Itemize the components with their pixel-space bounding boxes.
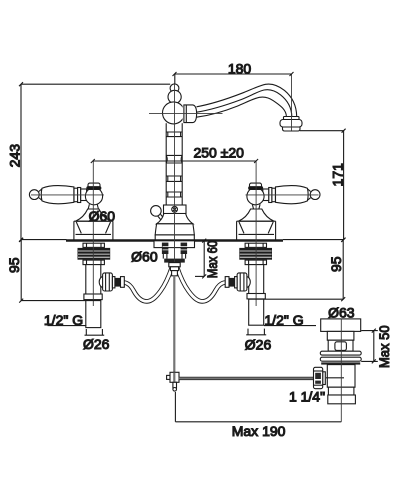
pop-up knob <box>151 206 166 223</box>
label 1/2" G left <box>44 312 86 328</box>
dimension 95 right <box>249 238 346 301</box>
svg-text:95: 95 <box>6 257 22 273</box>
dimension 180 <box>173 61 294 84</box>
svg-text:Max 60: Max 60 <box>204 241 220 279</box>
svg-text:Max 190: Max 190 <box>232 423 286 439</box>
centrelines <box>31 74 341 422</box>
drain knurled linkage nut <box>314 367 326 388</box>
drain waste assembly <box>320 319 361 404</box>
spout base bell <box>155 214 194 240</box>
svg-text:250 ±20: 250 ±20 <box>193 145 244 161</box>
spout tube <box>197 84 297 117</box>
right valve hose fitting <box>225 273 250 291</box>
right valve head <box>247 183 264 209</box>
pop-up rod vertical <box>167 276 179 391</box>
right valve shank <box>247 265 265 326</box>
svg-text:Ø26: Ø26 <box>245 336 272 352</box>
dimension Ø26 right <box>245 329 272 353</box>
dimension 250 ±20 <box>91 145 258 163</box>
svg-text:1/2" G: 1/2" G <box>44 312 83 328</box>
svg-text:Ø60: Ø60 <box>131 248 158 264</box>
left escutcheon <box>74 209 113 240</box>
right escutcheon <box>237 209 276 240</box>
spout collar <box>164 205 187 214</box>
centre mounting plate <box>154 241 195 276</box>
dimension 95 left <box>6 238 101 303</box>
svg-text:Max 50: Max 50 <box>377 325 393 368</box>
dimension Max 50 <box>361 325 392 368</box>
svg-text:171: 171 <box>330 163 346 187</box>
dimension 171 <box>300 129 346 242</box>
dimension 243 <box>6 82 170 241</box>
dimension Ø26 left <box>83 329 110 352</box>
pop-up rod horizontal <box>179 377 314 380</box>
left valve hose fitting <box>99 273 124 291</box>
spout column top finial <box>168 84 181 104</box>
svg-text:180: 180 <box>228 61 252 77</box>
left hose <box>124 267 172 301</box>
svg-text:1/2" G: 1/2" G <box>264 312 303 328</box>
svg-text:Ø60: Ø60 <box>89 208 116 224</box>
counter top <box>21 239 344 242</box>
aerator <box>280 117 302 132</box>
dimension Max 60 <box>195 239 220 279</box>
left handle lever <box>29 186 86 204</box>
label 1/2" G right <box>264 312 316 328</box>
dimension Max 190 <box>175 392 341 439</box>
svg-text:Ø63: Ø63 <box>328 305 355 321</box>
left valve undercounter stack <box>78 243 111 264</box>
right hose <box>177 267 225 301</box>
right valve undercounter stack <box>239 243 272 264</box>
pop-up rod tip inside drain <box>326 377 344 379</box>
spout ball joint <box>163 102 185 124</box>
right handle lever <box>263 186 320 204</box>
svg-text:95: 95 <box>328 256 344 272</box>
left valve head <box>85 183 102 209</box>
svg-text:1 1/4": 1 1/4" <box>289 389 325 405</box>
svg-text:243: 243 <box>6 144 22 168</box>
svg-text:Ø26: Ø26 <box>83 336 110 352</box>
left valve shank <box>84 265 102 328</box>
spout hub <box>183 104 197 123</box>
spout column <box>166 123 182 205</box>
